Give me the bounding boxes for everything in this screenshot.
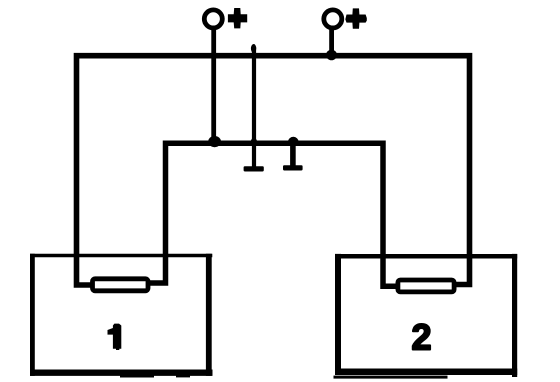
scan artifact line under tank 2 [334,376,448,379]
tank 1 box: bottom edge [30,370,213,376]
tank 2 box: right edge [512,254,517,377]
probe P1 tip bar [244,166,264,171]
wire: inner loop (R1 right lead, middle bus, drop riser, R2 left lead) [149,143,400,286]
svg-text:2: 2 [411,317,431,358]
tank 1 box: left edge [30,254,35,376]
resistor R1 (heater element in tank 1) [93,279,149,291]
wire: stem of probe P1 from top bus down [252,50,256,167]
wire: stem from terminal T2 down to top bus [329,29,334,56]
tank 2 box: left edge [335,254,341,375]
tank 2 box: bottom edge [335,369,517,376]
scan artifact marks under tank 1 [120,375,154,378]
label: plus sign at terminal T1 [228,8,247,28]
tank 1 box: right edge [206,254,212,376]
label: plus sign at terminal T2 [345,8,367,28]
node: small junction nub on top bus at P1 [251,44,256,53]
tank 2 box: top edge [335,254,517,259]
label 1 (tank 1 numeral, drawn as path: stem with flag, no foot) [108,324,122,350]
node: junction dot on middle bus under T1 [208,136,221,147]
wire: outer loop (R1 left lead, left riser, top bus, right riser, R2 right lead) [77,56,470,285]
terminal T2 circle [324,10,342,28]
node: junction dot on middle bus at P2 [288,137,298,147]
wire: stem of probe P2 from middle bus down [290,140,296,167]
tank 1 box: top edge [30,254,212,258]
node: junction dot on top bus under T2 [326,50,337,61]
wire: stem from terminal T1 down to middle bus [211,28,216,145]
probe P2 tip bar [283,165,303,170]
node: slight blob where P1 stem crosses middle bus [251,138,257,146]
terminal T1 circle [204,10,222,28]
resistor R2 (heater element in tank 2) [398,280,454,292]
